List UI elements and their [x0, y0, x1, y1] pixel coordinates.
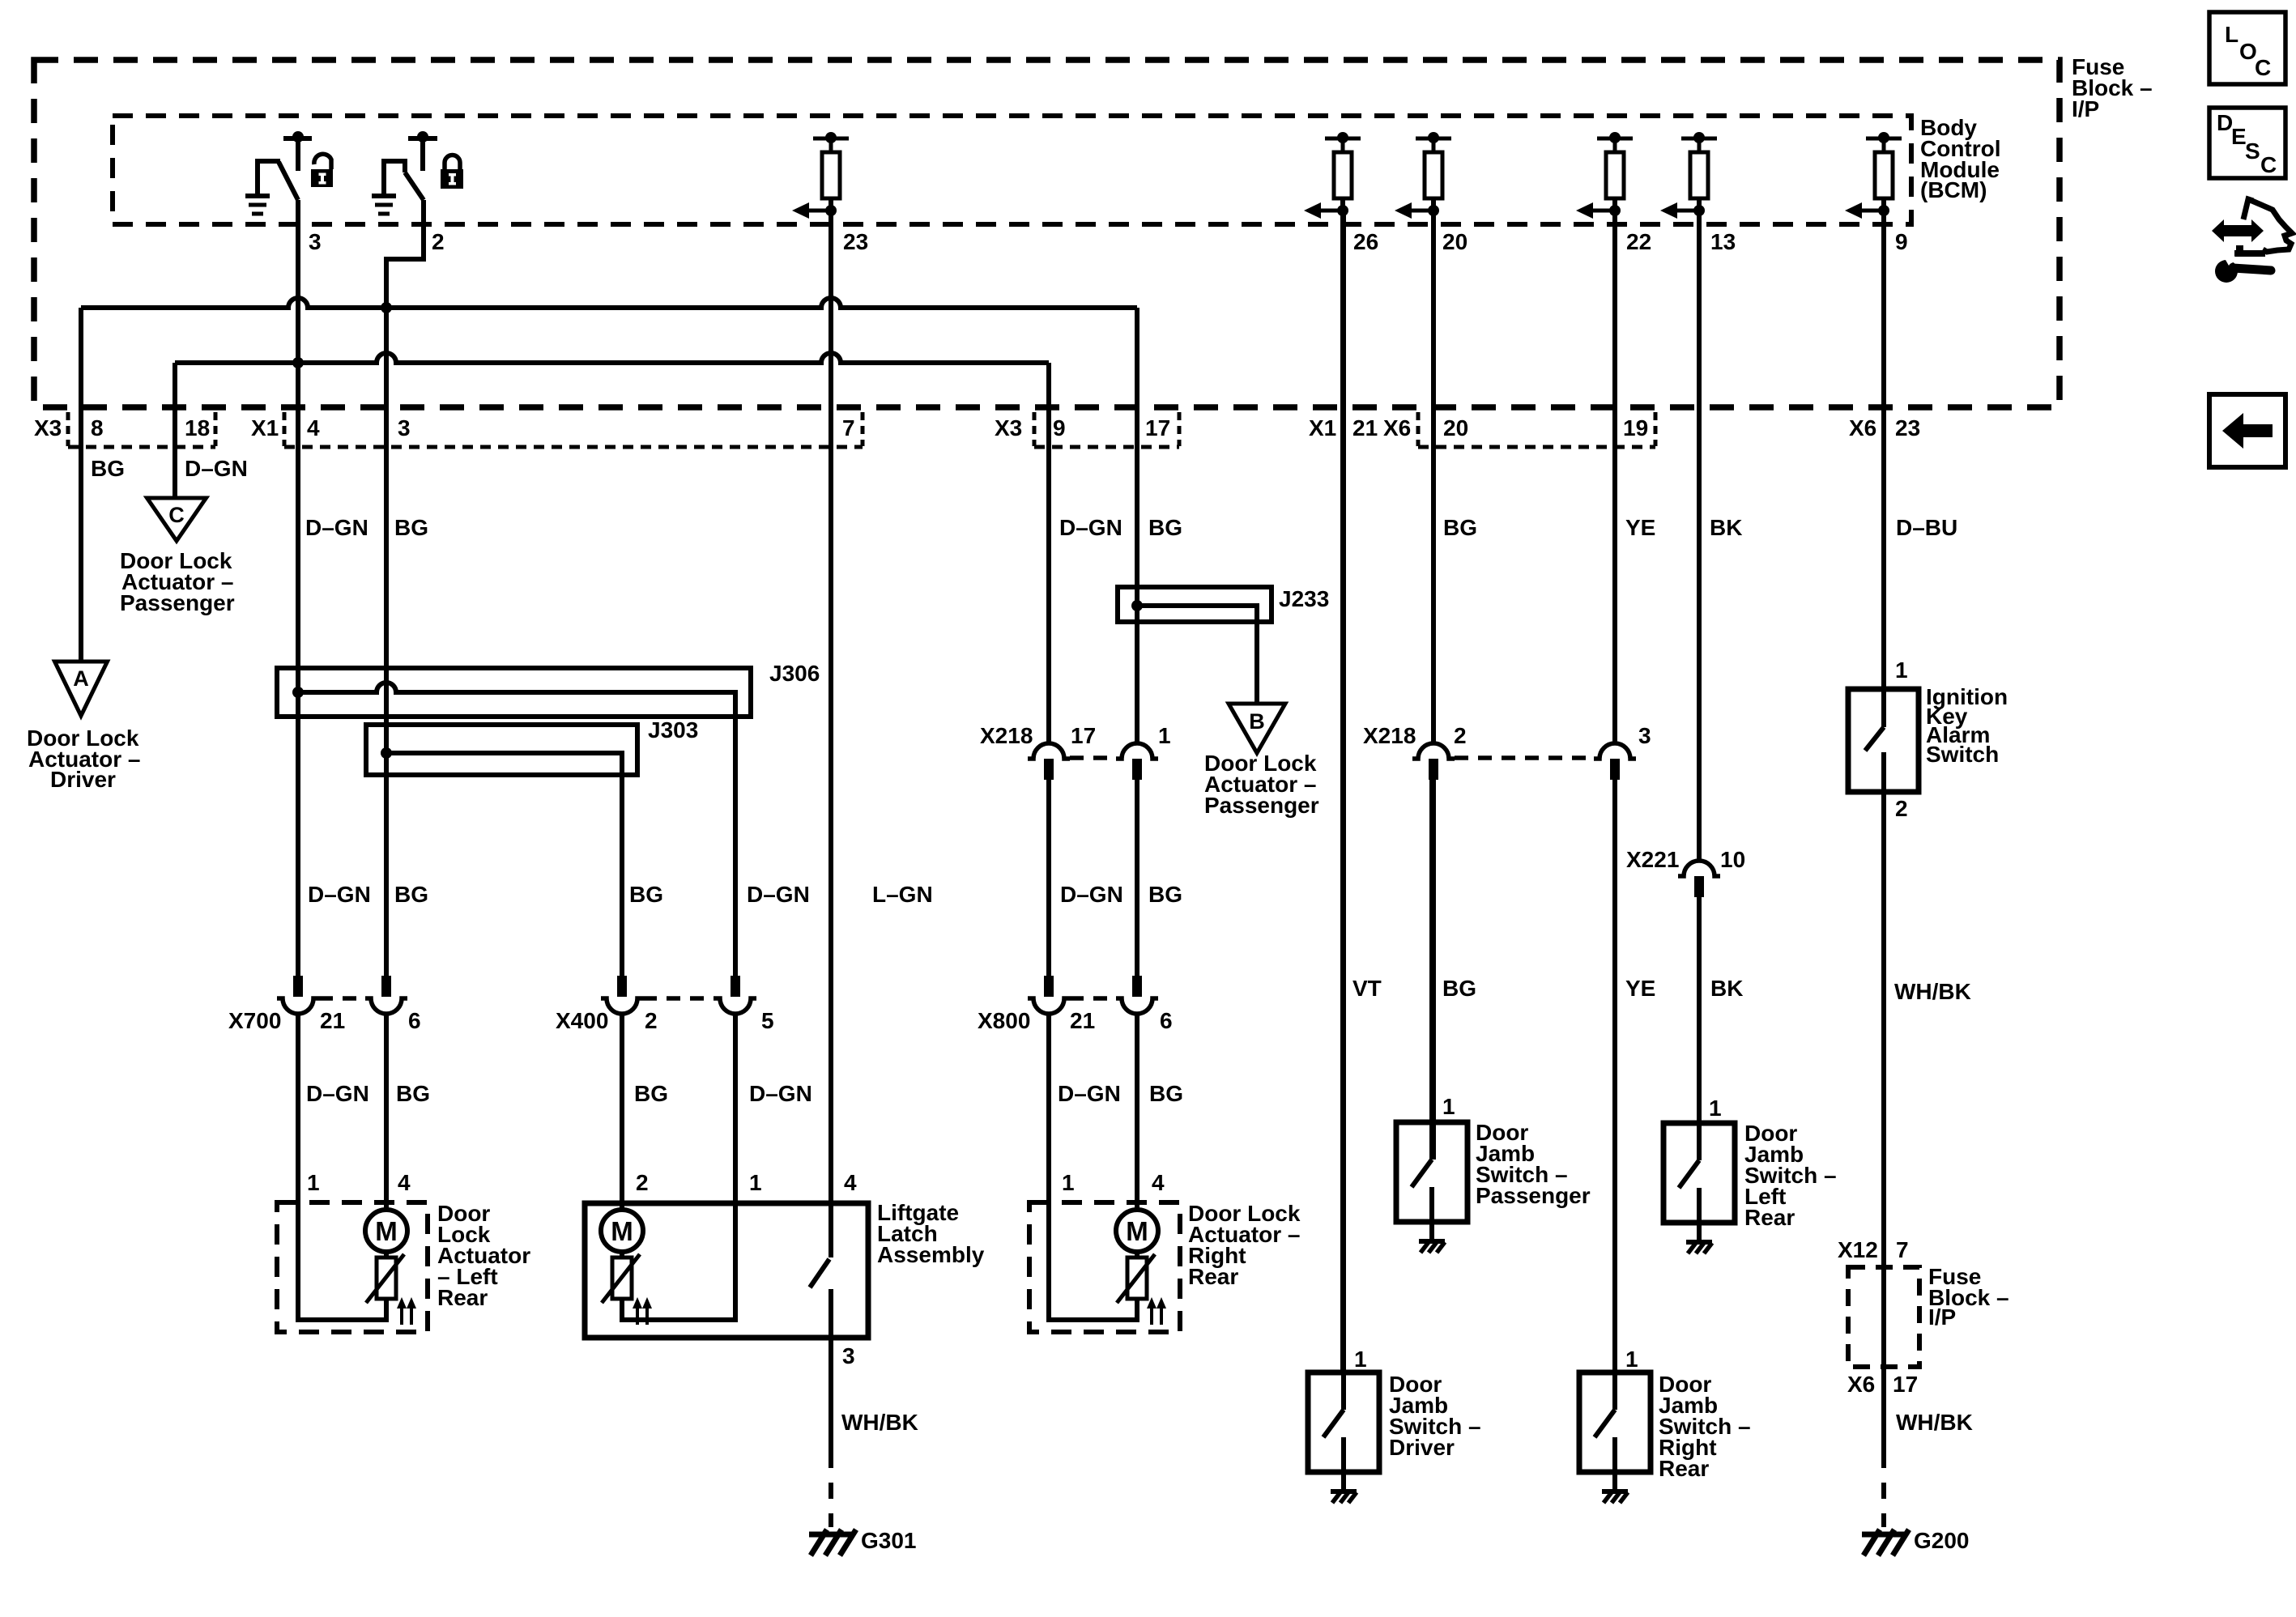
bus line 1 (lock command) [81, 298, 1137, 308]
J306 internal jumper [298, 683, 735, 976]
up arrows (left rear) [400, 1307, 403, 1325]
wire BCM pin 2 (lock) with jog [386, 200, 424, 308]
junction dot J303 [381, 747, 392, 759]
internal wire (right rear) [1049, 1202, 1137, 1320]
Door Jamb Switch - Passenger [1396, 1122, 1467, 1222]
wire pin22 YE column [1612, 211, 1617, 743]
svg-text:J306: J306 [769, 661, 820, 686]
svg-text:2: 2 [432, 229, 445, 254]
hidden wire to G301 [829, 1452, 833, 1527]
motor M (right rear actuator) [1116, 1210, 1158, 1252]
internal wire (left rear) [298, 1202, 386, 1320]
svg-text:BG: BG [1149, 1081, 1183, 1106]
svg-text:Passenger: Passenger [1476, 1183, 1591, 1208]
svg-text:C: C [168, 503, 185, 527]
svg-text:Passenger: Passenger [120, 590, 235, 615]
svg-text:BG: BG [629, 882, 663, 907]
wire D-GN below X218-17 [1046, 780, 1051, 976]
splice pack J303 [366, 725, 637, 775]
unlock switch SW1 contact and blade [258, 161, 280, 196]
inner dashed box: Body Control Module (BCM) [113, 116, 1911, 224]
svg-text:1: 1 [1442, 1094, 1455, 1119]
svg-text:YE: YE [1625, 976, 1655, 1001]
svg-text:1: 1 [307, 1170, 320, 1195]
wire D-GN to right actuator pin1 [1046, 1014, 1051, 1202]
svg-text:D–GN: D–GN [308, 882, 371, 907]
svg-text:G301: G301 [861, 1528, 917, 1553]
svg-text:X6: X6 [1849, 415, 1876, 440]
wire through X12 box [1881, 1267, 1886, 1452]
position resistor (right rear) [1127, 1257, 1147, 1299]
Door Lock Actuator - Right Rear dashed box [1029, 1202, 1180, 1332]
wire BG to liftgate pin2 [620, 775, 624, 976]
svg-text:4: 4 [398, 1170, 411, 1195]
svg-text:BK: BK [1710, 976, 1743, 1001]
svg-text:X1: X1 [251, 415, 279, 440]
wire BG below X218-2 [1431, 780, 1436, 1160]
svg-text:I/P: I/P [2072, 96, 2099, 121]
X800 dash [1070, 996, 1116, 1001]
wire BK below X221 [1697, 897, 1702, 1160]
svg-text:6: 6 [1160, 1008, 1173, 1033]
BCM output driver (fuse) pin 26 [1325, 137, 1361, 141]
motor M (liftgate) [601, 1210, 643, 1252]
svg-text:X800: X800 [978, 1008, 1030, 1033]
svg-text:BK: BK [1710, 515, 1742, 540]
svg-text:2: 2 [1454, 723, 1467, 748]
svg-text:Assembly: Assembly [877, 1242, 985, 1267]
wire X3-17 BG column [1135, 308, 1139, 743]
wire D-GN to liftgate pin1 [733, 717, 738, 976]
svg-text:Rear: Rear [437, 1285, 488, 1310]
wire X3-8 BG to Door Lock Actuator Driver [79, 308, 83, 662]
svg-text:X3: X3 [34, 415, 62, 440]
svg-text:E: E [2231, 124, 2247, 149]
svg-text:C: C [2255, 55, 2271, 80]
splice pack J233 [1118, 587, 1272, 622]
J233 internal jumper [1137, 606, 1257, 704]
X400 dash [643, 996, 714, 1001]
ground G200 [1862, 1532, 1906, 1538]
svg-text:D–GN: D–GN [306, 1081, 369, 1106]
svg-text:2: 2 [1895, 796, 1908, 821]
svg-text:X12: X12 [1838, 1237, 1878, 1262]
inline connector at x=908 (row X700/X400/X800) [731, 976, 740, 997]
svg-text:1: 1 [749, 1170, 762, 1195]
back arrow legend box [2209, 394, 2285, 467]
svg-text:X6: X6 [1847, 1372, 1875, 1397]
svg-text:3: 3 [1638, 723, 1651, 748]
Ignition Key Alarm Switch box [1848, 689, 1919, 792]
Fuse Block - I/P small dashed box (X12) [1848, 1267, 1919, 1367]
inline connector at x=1404 (row X700/X400/X800) [1132, 976, 1142, 997]
inline connector at x=768 (row X700/X400/X800) [617, 976, 627, 997]
svg-text:21: 21 [320, 1008, 345, 1033]
up arrows (right rear) [1150, 1307, 1153, 1325]
svg-text:BG: BG [91, 456, 125, 481]
lock switch SW2 contact and blade [384, 161, 405, 196]
svg-text:BG: BG [1148, 515, 1182, 540]
svg-text:WH/BK: WH/BK [1896, 1410, 1973, 1435]
svg-text:5: 5 [761, 1008, 774, 1033]
wire WH/BK below liftgate [829, 1338, 833, 1452]
svg-text:26: 26 [1353, 229, 1378, 254]
BCM output driver (fuse) pin 9 [1866, 137, 1902, 141]
svg-text:J303: J303 [648, 717, 698, 743]
lock switch SW2 pivot [408, 136, 437, 141]
LOC legend box [2209, 12, 2285, 84]
svg-text:22: 22 [1626, 229, 1651, 254]
svg-text:WH/BK: WH/BK [1894, 979, 1971, 1004]
svg-text:WH/BK: WH/BK [841, 1410, 918, 1435]
svg-text:Rear: Rear [1188, 1264, 1238, 1289]
Door Jamb Switch - Left Rear [1663, 1123, 1735, 1223]
triangle A Door Lock Actuator Driver [55, 662, 108, 716]
BCM output driver (fuse) pin 22 [1597, 137, 1633, 141]
svg-text:BG: BG [394, 515, 428, 540]
svg-text:10: 10 [1720, 847, 1745, 872]
svg-text:D–GN: D–GN [185, 456, 248, 481]
svg-text:VT: VT [1352, 976, 1382, 1001]
motor-resistor link (right rear) [1135, 1252, 1139, 1257]
svg-text:7: 7 [842, 415, 855, 440]
svg-text:X400: X400 [556, 1008, 608, 1033]
svg-text:4: 4 [1152, 1170, 1165, 1195]
wire X3-18 D-GN to Door Lock Actuator Passenger [173, 363, 177, 498]
svg-text:9: 9 [1895, 229, 1908, 254]
svg-text:B: B [1249, 709, 1265, 734]
wire D-GN to left actuator pin1 [296, 1014, 300, 1202]
svg-text:20: 20 [1443, 415, 1468, 440]
hidden wire to G200 [1881, 1452, 1886, 1527]
position resistor (liftgate) [612, 1257, 632, 1299]
svg-text:Switch: Switch [1926, 742, 1999, 767]
svg-text:L: L [2225, 22, 2238, 47]
svg-text:BG: BG [1148, 882, 1182, 907]
svg-text:X3: X3 [995, 415, 1022, 440]
inline connector at x=368 (row X700/X400/X800) [293, 976, 303, 997]
svg-text:2: 2 [645, 1008, 658, 1033]
svg-text:L–GN: L–GN [872, 882, 933, 907]
connector X218 pin 1 [1116, 743, 1158, 759]
svg-text:21: 21 [1070, 1008, 1095, 1033]
svg-text:BG: BG [1442, 976, 1476, 1001]
svg-text:1: 1 [1062, 1170, 1075, 1195]
svg-text:D–GN: D–GN [305, 515, 368, 540]
svg-text:Driver: Driver [1389, 1435, 1455, 1460]
svg-text:D–GN: D–GN [749, 1081, 812, 1106]
svg-text:20: 20 [1442, 229, 1467, 254]
connector X218 pin 2 [1412, 743, 1455, 759]
svg-text:4: 4 [307, 415, 320, 440]
outer dashed box: Fuse Block - I/P [34, 60, 2060, 407]
svg-text:1: 1 [1158, 723, 1171, 748]
motor-resistor link (left rear) [384, 1252, 389, 1257]
triangle B Door Lock Actuator Passenger [1229, 704, 1285, 753]
svg-text:D–GN: D–GN [1060, 882, 1123, 907]
svg-text:D–BU: D–BU [1896, 515, 1957, 540]
ignition switch contacts [1881, 689, 1886, 727]
svg-text:9: 9 [1053, 415, 1066, 440]
junction dot bus2/pin3 wire [292, 357, 304, 368]
svg-text:3: 3 [398, 415, 411, 440]
svg-text:G200: G200 [1914, 1528, 1970, 1553]
svg-text:23: 23 [1895, 415, 1920, 440]
svg-text:19: 19 [1623, 415, 1648, 440]
svg-text:(BCM): (BCM) [1920, 177, 1987, 202]
hand with wrench icon [2212, 219, 2264, 242]
wire YE below X218-3 [1612, 780, 1617, 1410]
svg-text:X218: X218 [980, 723, 1033, 748]
wire BG to left actuator pin4 [384, 1014, 389, 1210]
junction dot J306 [292, 687, 304, 698]
svg-text:17: 17 [1071, 723, 1096, 748]
wire BCM pin 3 (unlock) [296, 200, 300, 976]
wire pin13 BK column [1697, 211, 1702, 861]
ground (unlock switch) [245, 194, 270, 198]
svg-text:4: 4 [844, 1170, 857, 1195]
connector X221 pin 10 [1678, 861, 1720, 876]
svg-text:M: M [375, 1216, 398, 1246]
connector row separators (dashed) [66, 412, 70, 446]
motor M (left rear actuator) [365, 1210, 407, 1252]
svg-text:X1: X1 [1309, 415, 1336, 440]
junction dot bus1/pin2 wire [381, 302, 392, 313]
ground (lock switch) [372, 194, 396, 198]
svg-text:23: 23 [843, 229, 868, 254]
svg-text:1: 1 [1625, 1347, 1638, 1372]
Door Lock Actuator - Left Rear dashed box [277, 1202, 428, 1332]
X700 dash [319, 996, 365, 1001]
svg-text:3: 3 [309, 229, 322, 254]
svg-text:X221: X221 [1626, 847, 1679, 872]
splice pack J306 [277, 668, 751, 717]
svg-text:Rear: Rear [1659, 1456, 1709, 1481]
svg-text:C: C [2260, 152, 2277, 177]
svg-text:I/P: I/P [1928, 1304, 1956, 1330]
svg-text:6: 6 [408, 1008, 421, 1033]
wire pin26 VT column [1340, 211, 1345, 1372]
Door Jamb Switch - Driver [1308, 1372, 1379, 1472]
J303 internal jumper [386, 753, 622, 976]
svg-text:BG: BG [1443, 515, 1477, 540]
svg-text:X6: X6 [1383, 415, 1411, 440]
BCM output driver (fuse) pin 23 [813, 137, 849, 141]
wire BG to right actuator pin4 [1135, 1014, 1139, 1210]
X218 left dash [1070, 755, 1116, 760]
open padlock icon [311, 169, 333, 187]
svg-text:M: M [1126, 1216, 1148, 1246]
svg-text:M: M [611, 1216, 633, 1246]
svg-text:1: 1 [1709, 1096, 1722, 1121]
connector X218 pin 17 [1028, 743, 1070, 759]
svg-text:Passenger: Passenger [1204, 793, 1319, 818]
closed padlock icon [441, 169, 463, 189]
Door Jamb Switch - Right Rear [1579, 1372, 1651, 1472]
svg-text:1: 1 [1895, 657, 1908, 683]
svg-text:2: 2 [636, 1170, 649, 1195]
DESC legend box [2209, 108, 2285, 178]
wire BG below X218-1 [1135, 780, 1139, 976]
svg-text:X700: X700 [228, 1008, 281, 1033]
liftgate latch switch [829, 1203, 833, 1257]
svg-text:21: 21 [1352, 415, 1378, 440]
svg-text:17: 17 [1893, 1372, 1918, 1397]
bus line 2 (unlock command) [175, 353, 1049, 363]
wire pin20 BG column [1431, 211, 1436, 743]
svg-text:BG: BG [634, 1081, 668, 1106]
svg-text:D–GN: D–GN [1059, 515, 1122, 540]
svg-text:D–GN: D–GN [747, 882, 810, 907]
Liftgate Latch Assembly box [585, 1203, 868, 1338]
svg-text:A: A [73, 666, 89, 691]
wire pin23 L-GN column [829, 211, 833, 1203]
svg-text:D–GN: D–GN [1058, 1081, 1121, 1106]
up arrows (liftgate) [636, 1307, 639, 1325]
svg-text:Driver: Driver [50, 767, 116, 792]
svg-text:S: S [2245, 138, 2260, 164]
position resistor (left rear) [377, 1257, 396, 1299]
inline connector at x=1295 (row X700/X400/X800) [1044, 976, 1054, 997]
svg-text:8: 8 [91, 415, 104, 440]
svg-text:3: 3 [842, 1343, 855, 1368]
svg-text:17: 17 [1145, 415, 1170, 440]
connector X218 pin 3 [1594, 743, 1636, 759]
BCM output driver (fuse) pin 20 [1416, 137, 1451, 141]
svg-text:BG: BG [394, 882, 428, 907]
ground G301 [809, 1532, 853, 1538]
svg-text:7: 7 [1896, 1237, 1909, 1262]
back arrow [2222, 413, 2273, 449]
triangle C Door Lock Actuator Passenger [147, 498, 207, 541]
X218 right dash [1455, 755, 1594, 760]
svg-text:J233: J233 [1279, 586, 1329, 611]
svg-text:X218: X218 [1363, 723, 1416, 748]
svg-text:YE: YE [1625, 515, 1655, 540]
BCM output driver (fuse) pin 13 [1681, 137, 1717, 141]
wire X3-9 D-GN column [1046, 363, 1051, 743]
unlock switch SW1 pivot [283, 136, 312, 141]
internal wire (liftgate) [622, 1203, 735, 1320]
wire pin9 D-BU column [1881, 211, 1886, 689]
junction dot J233 [1131, 600, 1143, 611]
inline connector at x=477 (row X700/X400/X800) [381, 976, 391, 997]
svg-text:Rear: Rear [1744, 1205, 1795, 1230]
connector row bracket lines (dashed) [68, 445, 215, 449]
svg-text:1: 1 [1354, 1347, 1367, 1372]
svg-text:18: 18 [185, 415, 210, 440]
motor-resistor link (liftgate) [620, 1252, 624, 1257]
svg-text:BG: BG [396, 1081, 430, 1106]
svg-text:13: 13 [1710, 229, 1736, 254]
wire pin2/BG column [384, 308, 389, 976]
